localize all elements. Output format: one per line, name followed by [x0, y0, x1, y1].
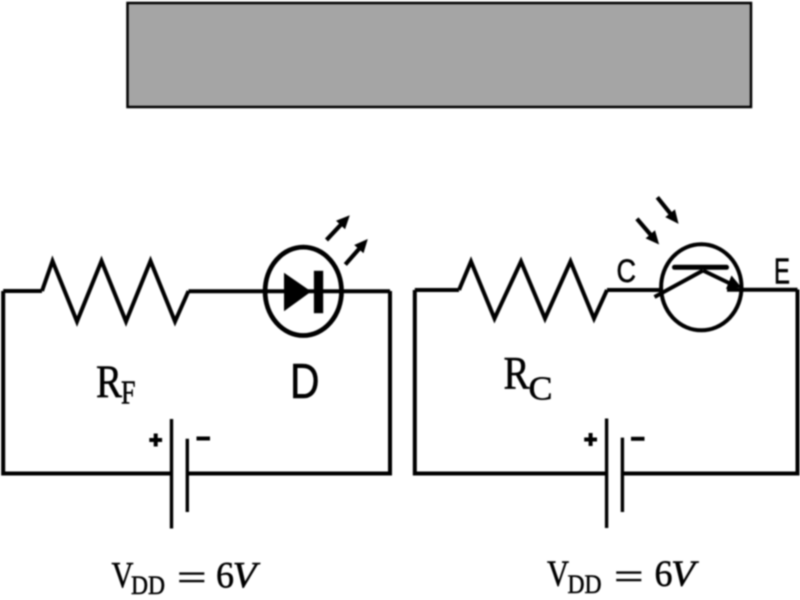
wire: phototransistor to right side [727, 288, 798, 292]
battery V2 short plate (-) [621, 438, 624, 512]
battery V1 plus sign [149, 434, 162, 447]
svg-text:DD: DD [131, 570, 165, 600]
svg-text:V: V [233, 555, 261, 596]
svg-text:DD: DD [568, 569, 602, 599]
svg-text:D: D [290, 354, 320, 409]
svg-text:R: R [96, 356, 123, 408]
phototransistor collector lead [655, 271, 704, 298]
incoming light arrow 2 [652, 193, 683, 227]
diode D triangle (anode) [284, 273, 311, 312]
diode D cathode bar [314, 271, 323, 313]
svg-text:6: 6 [216, 555, 234, 596]
wire: left circuit left side + bottom-left [3, 291, 171, 474]
svg-text:V: V [671, 554, 699, 595]
wire: right circuit left side + bottom-left [415, 290, 607, 474]
wire: top-left to resistor [3, 289, 42, 293]
battery V2 minus sign [631, 437, 645, 441]
wire: top-left to resistor RC [415, 288, 459, 292]
phototransistor emitter lead with arrow [703, 271, 729, 284]
svg-text:C: C [617, 252, 637, 289]
phototransistor Q1 circle [661, 244, 741, 330]
svg-text:F: F [121, 375, 136, 412]
svg-text:C: C [529, 371, 553, 408]
incoming light arrow 1 [632, 215, 664, 249]
svg-text:=: = [614, 556, 644, 597]
redacted title box [128, 3, 752, 107]
LED D circle [265, 247, 341, 335]
battery V1 long plate (+) [170, 419, 173, 529]
svg-text:6: 6 [655, 554, 673, 595]
battery V2 long plate (+) [605, 419, 608, 529]
resistor RF [42, 261, 189, 322]
LED emitted-light arrow 2 [341, 235, 373, 269]
phototransistor base bar [675, 265, 727, 270]
svg-text:=: = [177, 558, 207, 599]
resistor RC [459, 262, 607, 319]
svg-text:E: E [774, 251, 790, 292]
battery V1 short plate (-) [186, 439, 189, 512]
LED emitted-light arrow 1 [322, 211, 354, 244]
battery V1 minus sign [197, 437, 211, 441]
svg-text:V: V [547, 554, 569, 595]
wire: resistor to phototransistor [607, 288, 660, 292]
battery V2 plus sign [584, 433, 597, 446]
wire: left circuit right side [187, 291, 390, 474]
svg-text:R: R [504, 348, 531, 400]
wire: resistor to LED and through LED [189, 289, 391, 293]
wire: right circuit right side + bottom-right [622, 290, 797, 474]
